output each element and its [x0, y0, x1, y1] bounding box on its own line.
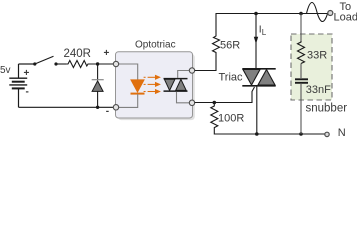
opto internal wire anode — [117, 64, 138, 80]
battery B1 5v — [9, 64, 27, 107]
wire opto right top pin to 56R — [195, 54, 216, 71]
current arrow IL — [254, 14, 258, 69]
opto internal wire cathode — [117, 94, 138, 107]
svg-text:56R: 56R — [220, 40, 240, 52]
svg-text:snubber: snubber — [306, 103, 348, 115]
svg-text:N: N — [338, 127, 346, 139]
top rail wire — [216, 13, 329, 15]
diode D1 (pointing up) — [92, 80, 104, 92]
node snubber top junction — [299, 12, 303, 16]
svg-text:Triac: Triac — [219, 72, 244, 84]
svg-text:Load: Load — [334, 12, 357, 24]
wire resistor to opto pin — [90, 63, 114, 65]
node junction top of diode — [96, 62, 99, 65]
svg-text:+: + — [24, 68, 30, 79]
wire snubber top lead — [300, 14, 302, 42]
node gate 100R junction — [213, 101, 217, 105]
wire 100R to bottom rail — [214, 130, 325, 135]
opto-triac symbol inside box — [164, 79, 188, 92]
opto internal wire to bottom pin — [177, 92, 192, 103]
wire cap to bottom rail — [300, 84, 302, 134]
svg-text:5v: 5v — [0, 65, 11, 76]
LED D2 inside opto — [131, 80, 145, 94]
node triac top junction — [254, 12, 258, 16]
pin circle opto right top — [189, 68, 194, 73]
svg-text:33nF: 33nF — [306, 84, 331, 96]
node triac bottom junction — [255, 132, 259, 136]
wire 56R to top rail — [215, 14, 217, 35]
svg-text:L: L — [262, 28, 267, 37]
opto internal wire to top pin — [178, 71, 191, 79]
optotriac package box U1 shadow — [118, 54, 195, 120]
terminal circle N — [325, 132, 329, 136]
svg-text:100R: 100R — [218, 113, 244, 125]
wire diode branch upper — [97, 64, 99, 80]
terminal circle To Load — [328, 11, 333, 16]
svg-text:240R: 240R — [64, 48, 92, 60]
triac T1 — [242, 69, 275, 86]
AC sine symbol on load wire — [307, 3, 328, 22]
snubber dashed box — [291, 34, 332, 100]
pin circle opto left top — [113, 61, 118, 66]
svg-text:-: - — [106, 106, 109, 117]
node junction bottom of diode — [96, 106, 99, 109]
resistor 100R — [211, 103, 218, 130]
svg-text:+: + — [104, 48, 110, 59]
resistor 56R — [213, 35, 220, 55]
wire triac gate — [195, 87, 255, 103]
resistor 33R — [298, 41, 305, 64]
pin circle opto right bottom — [189, 100, 194, 105]
svg-text:-: - — [26, 87, 29, 98]
node snubber bottom junction — [299, 132, 303, 136]
capacitor 33nF — [295, 79, 308, 83]
switch S1 — [33, 56, 57, 65]
wire triac MT1 down — [256, 87, 258, 135]
wire diode branch lower — [97, 91, 99, 107]
pin circle opto left bottom — [113, 105, 118, 110]
wire battery top to switch — [19, 63, 35, 65]
wire 33R to cap — [300, 64, 302, 79]
wire switch to resistor — [56, 63, 66, 65]
optotriac package box U1 — [116, 52, 193, 118]
wire battery bottom to opto pin — [19, 106, 114, 108]
LED light arrows — [144, 76, 160, 94]
svg-text:Optotriac: Optotriac — [135, 40, 176, 51]
resistor 240R — [66, 61, 90, 68]
svg-text:33R: 33R — [307, 50, 327, 62]
